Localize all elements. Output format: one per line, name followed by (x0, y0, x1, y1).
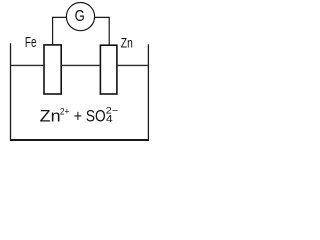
svg-text:Zn: Zn (121, 35, 133, 51)
wire right (galvanometer to Zn electrode) (95, 17, 110, 45)
beaker (11, 43, 149, 140)
svg-text:2+: 2+ (60, 106, 70, 117)
galvanometer G (66, 3, 94, 31)
wire left (galvanometer to Fe electrode) (53, 17, 67, 45)
svg-text:+: + (74, 106, 82, 125)
svg-text:Fe: Fe (25, 35, 37, 51)
svg-text:4: 4 (106, 113, 113, 125)
svg-text:G: G (75, 8, 85, 25)
electrode Zn (right plate) (100, 45, 117, 94)
svg-text:SO: SO (86, 106, 106, 125)
electrolyte level line (11, 64, 148, 66)
electrolyte label Zn2+ + SO4 2- (40, 105, 119, 125)
electrode Fe (left plate) (44, 45, 61, 94)
svg-text:Zn: Zn (40, 106, 61, 125)
